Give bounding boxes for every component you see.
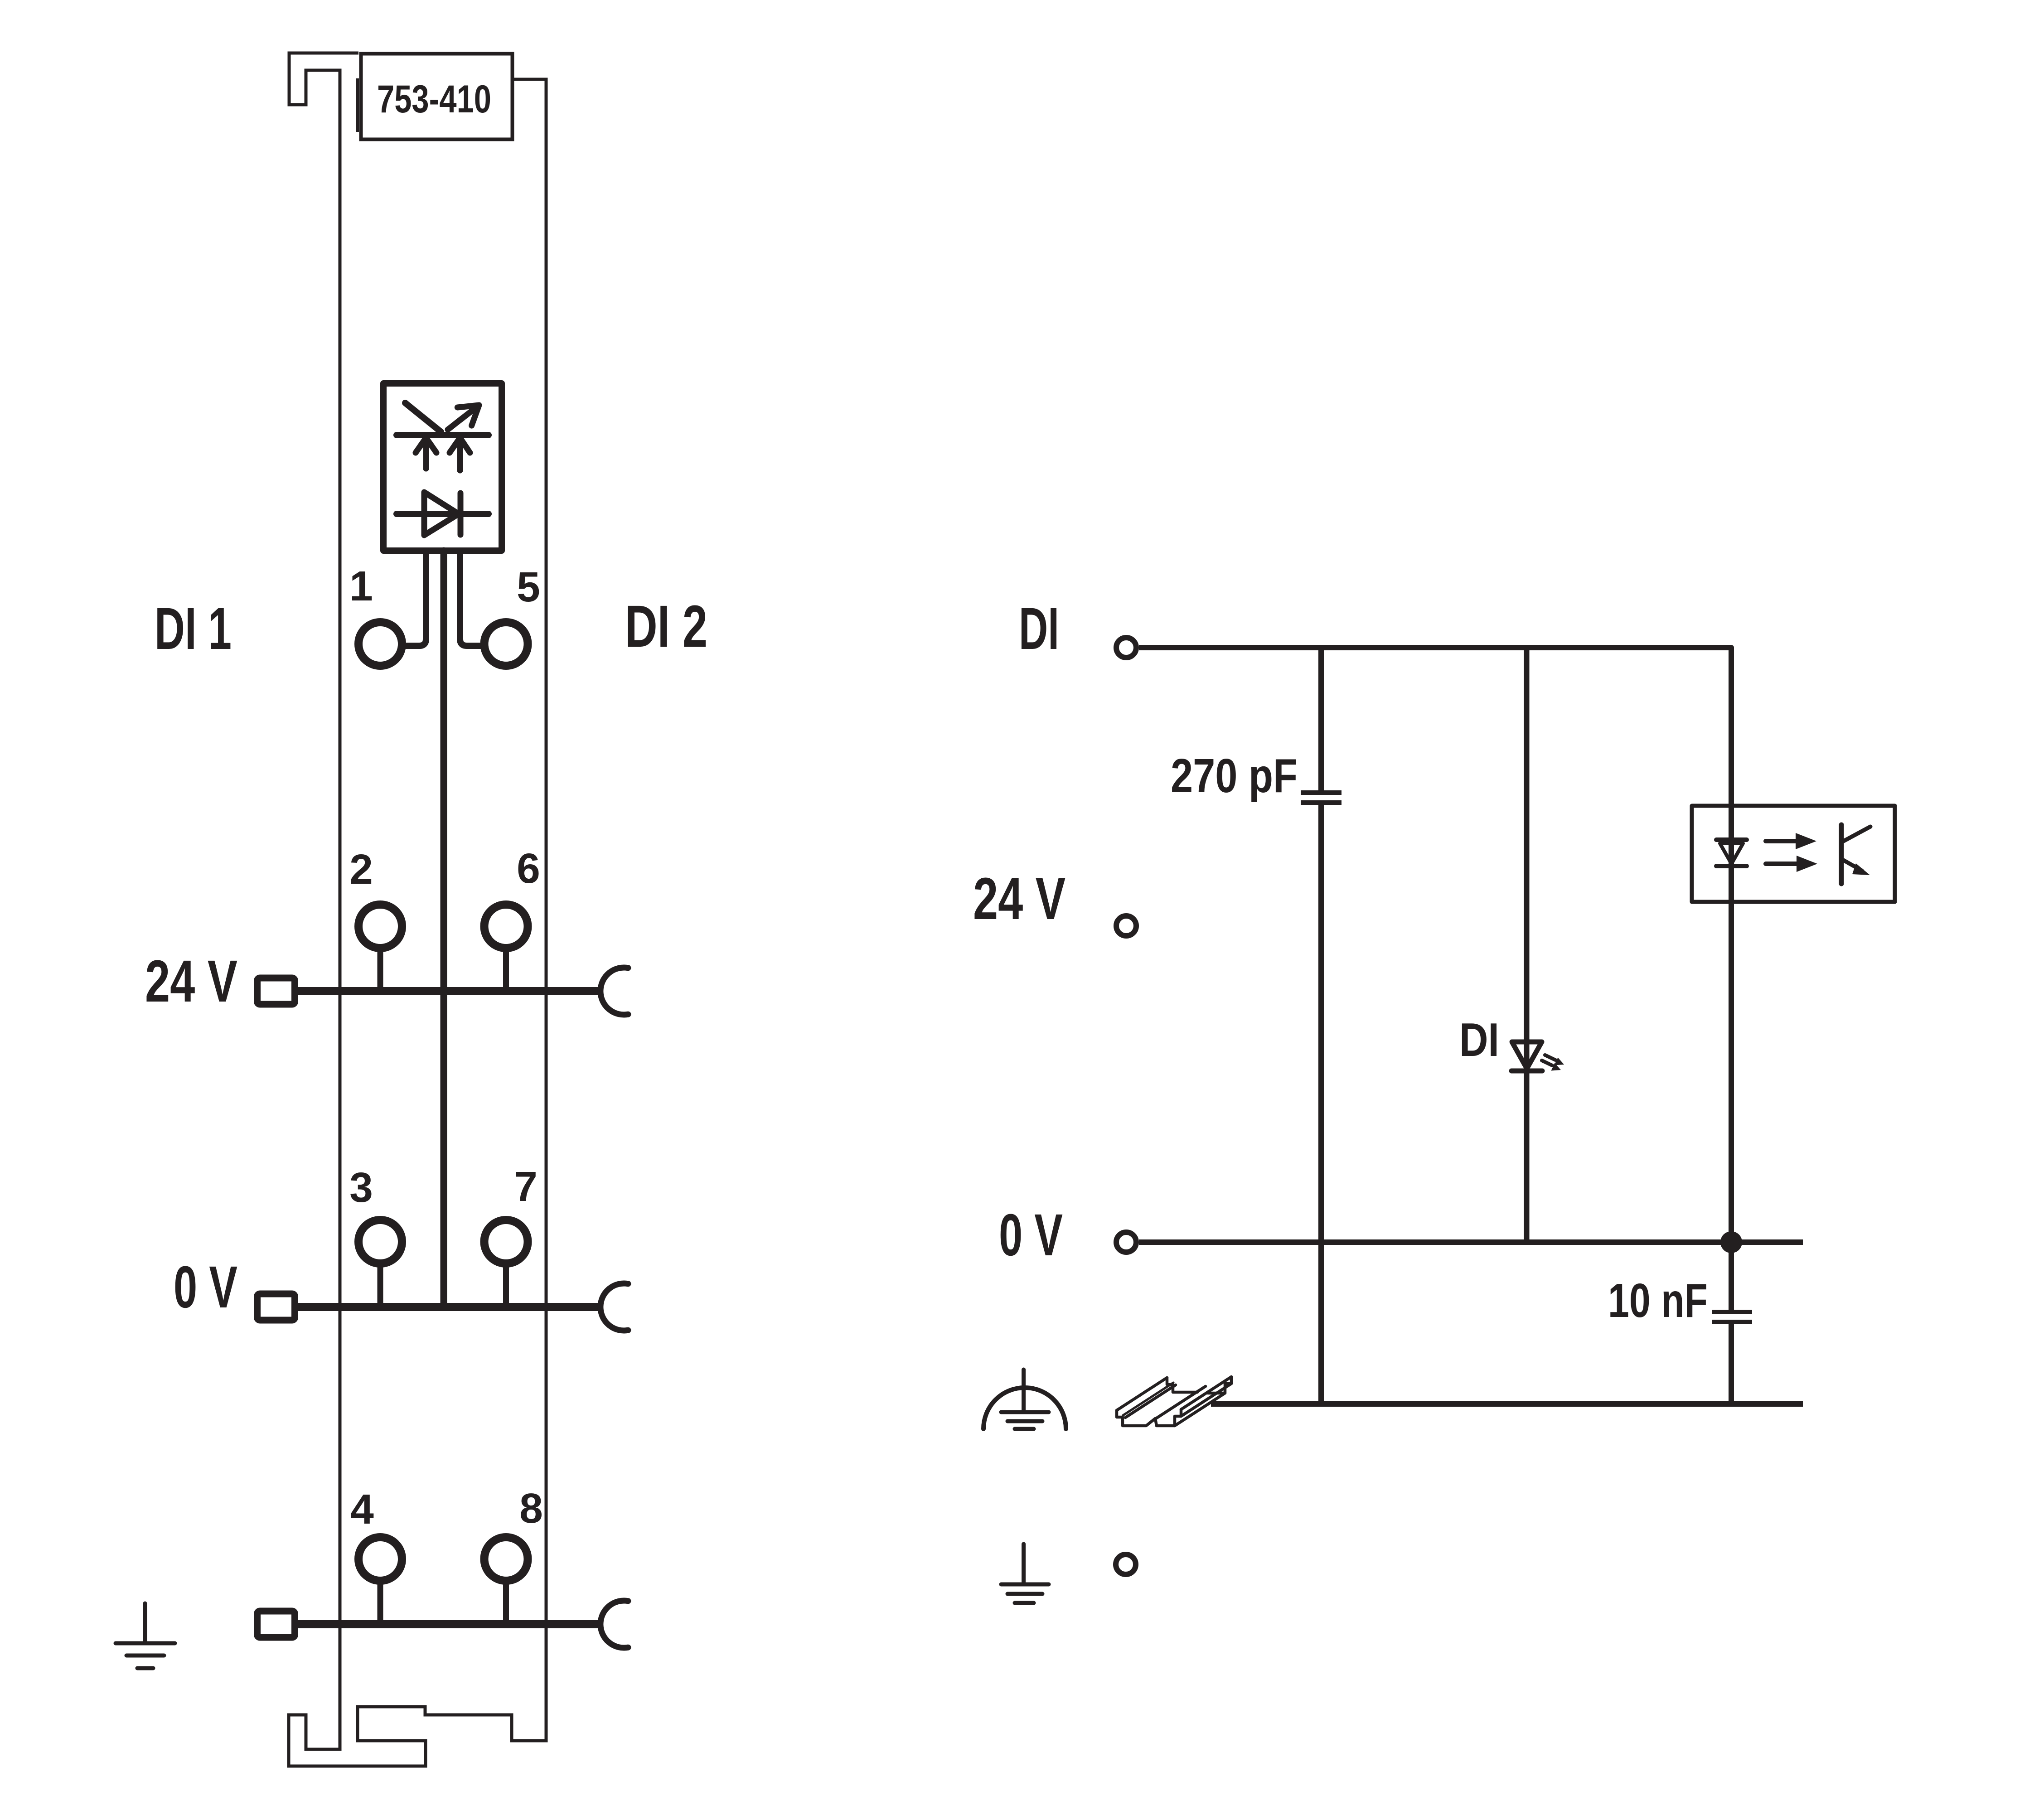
opto LED cathode bar — [1716, 864, 1747, 868]
earth jumper contact arc — [601, 1601, 628, 1648]
terminal circles — [358, 622, 528, 1581]
stem 7 — [503, 1263, 509, 1307]
capacitor C2 10nF plates — [1712, 1310, 1752, 1314]
optocoupler U2 box — [1692, 806, 1895, 902]
stem 3 — [378, 1263, 383, 1307]
terminal 6 — [484, 905, 528, 948]
svg-text:6: 6 — [517, 845, 540, 892]
terminal 1 — [358, 622, 402, 666]
capacitor C2 10nF branch lower to ground rail — [1729, 1324, 1734, 1404]
opto light arrowhead lower — [1797, 856, 1817, 872]
terminal 4 — [358, 1537, 402, 1581]
0V terminal box — [257, 1294, 295, 1320]
LED DI cathode bar — [1511, 1069, 1542, 1074]
svg-text:5: 5 — [517, 563, 540, 610]
wire block to terminal 5 — [460, 551, 481, 646]
svg-text:8: 8 — [519, 1485, 543, 1532]
front cross-section — [1117, 1409, 1181, 1426]
long edges — [1117, 1378, 1167, 1410]
ground symbol (earth bottom right) — [1001, 1544, 1049, 1603]
0V rail — [298, 1303, 601, 1311]
capacitor C1 270pF branch lower to ground rail — [1318, 805, 1324, 1404]
wires from block to terminals — [405, 551, 481, 1307]
stem 8 — [503, 1581, 509, 1624]
svg-text:0 V: 0 V — [999, 1201, 1063, 1268]
right labels — [973, 595, 1708, 1327]
chassis ground symbol (noiseless earth) — [983, 1370, 1066, 1429]
terminal 5 — [484, 622, 528, 666]
earth rail — [298, 1620, 601, 1628]
svg-text:10 nF: 10 nF — [1608, 1274, 1708, 1327]
svg-text:0 V: 0 V — [174, 1254, 237, 1320]
svg-text:DI: DI — [1459, 1014, 1499, 1066]
label box 753-410 — [361, 54, 513, 140]
earth terminal box — [257, 1611, 295, 1637]
input protection block U1 (module symbol box) — [383, 383, 502, 551]
diagonal output arrow — [448, 405, 479, 430]
terminal 0V open circle — [1116, 1232, 1136, 1252]
phototransistor Q1 base bar — [1839, 825, 1844, 884]
terminal 2 — [358, 905, 402, 948]
photo arrow left (up) — [416, 438, 436, 469]
photo element bar — [397, 432, 489, 438]
left module labels — [145, 562, 707, 1533]
back cap right — [1208, 1377, 1231, 1393]
terminal 7 — [484, 1220, 528, 1263]
opto light arrowhead upper — [1796, 833, 1816, 849]
terminal 3 — [358, 1220, 402, 1263]
24V jumper contact arc — [601, 968, 628, 1015]
svg-text:24 V: 24 V — [145, 948, 237, 1014]
phototransistor emitter arrowhead — [1852, 863, 1870, 875]
phototransistor emitter — [1842, 859, 1862, 871]
terminal 8 — [484, 1537, 528, 1581]
ground rail wire — [1211, 1401, 1803, 1407]
24V terminal box — [257, 978, 295, 1004]
capacitor C1 270pF branch upper — [1318, 648, 1324, 791]
optocoupler bus through box (to 0V) — [1729, 806, 1734, 1242]
opto light arrow lower — [1766, 862, 1798, 866]
svg-text:24 V: 24 V — [973, 865, 1065, 932]
opto light arrow upper — [1766, 839, 1797, 843]
node 0V rail — [1139, 1239, 1803, 1245]
opto LED anode bar — [1716, 837, 1747, 842]
svg-text:4: 4 — [350, 1486, 374, 1533]
capacitor C2 10nF branch upper — [1729, 1242, 1734, 1310]
photo arrow right (up) — [450, 438, 470, 470]
module edge stub behind label — [356, 78, 359, 132]
back cap left — [1167, 1378, 1197, 1392]
diode D1 (in module box) — [397, 511, 489, 517]
svg-text:DI: DI — [1019, 595, 1059, 662]
stem 6 — [503, 948, 509, 991]
diagonal line — [405, 403, 441, 432]
svg-text:DI 2: DI 2 — [625, 593, 707, 659]
wire block to terminal 1 — [405, 551, 426, 646]
svg-text:1: 1 — [349, 562, 373, 610]
module outline 753-410 housing — [289, 53, 546, 1766]
svg-text:270 pF: 270 pF — [1171, 749, 1298, 803]
junction 0V node dot — [1720, 1231, 1742, 1253]
opto LED triangle — [1720, 843, 1743, 864]
LED DI light arrows — [1542, 1055, 1564, 1071]
DIN rail symbol — [1117, 1377, 1231, 1426]
stem 2 — [378, 948, 383, 991]
svg-text:3: 3 — [349, 1164, 373, 1211]
stem 4 — [378, 1581, 383, 1624]
24V rail — [298, 987, 601, 995]
LED DI branch wire — [1524, 648, 1530, 1242]
phototransistor collector — [1842, 827, 1870, 842]
terminal DI open circle — [1116, 638, 1136, 658]
svg-text:2: 2 — [349, 846, 373, 893]
svg-text:DI 1: DI 1 — [155, 595, 232, 662]
terminal 24V open circle — [1116, 916, 1136, 936]
LED DI triangle — [1512, 1042, 1542, 1069]
terminal PE open circle — [1116, 1554, 1136, 1574]
wire center bus to 0V rail — [441, 551, 447, 1307]
node DI wire to optocoupler — [1139, 648, 1731, 806]
power rails — [257, 968, 629, 1648]
svg-text:7: 7 — [514, 1163, 538, 1210]
0V jumper contact arc — [601, 1283, 628, 1331]
svg-text:753-410: 753-410 — [377, 77, 491, 121]
terminal stems — [380, 948, 506, 1624]
capacitor C1 270pF plates — [1301, 790, 1341, 795]
ground symbol (left module) — [116, 1603, 175, 1668]
